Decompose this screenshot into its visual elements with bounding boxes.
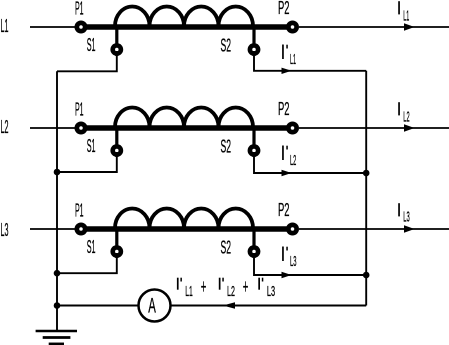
svg-text:L1: L1 (290, 52, 296, 68)
svg-text:L3: L3 (403, 209, 410, 225)
svg-text:L2: L2 (227, 284, 235, 300)
svg-text:L2: L2 (403, 109, 409, 125)
svg-text:L3: L3 (1, 219, 9, 240)
svg-text:L1: L1 (1, 15, 9, 36)
svg-text:L1: L1 (185, 284, 193, 300)
svg-text:+: + (201, 277, 207, 299)
svg-text:L2: L2 (290, 153, 296, 169)
svg-text:L2: L2 (1, 116, 9, 137)
svg-text:L3: L3 (267, 284, 275, 300)
svg-text:A: A (148, 294, 156, 318)
svg-text:L1: L1 (403, 8, 409, 24)
svg-text:+: + (243, 277, 249, 299)
svg-text:L3: L3 (290, 254, 297, 270)
